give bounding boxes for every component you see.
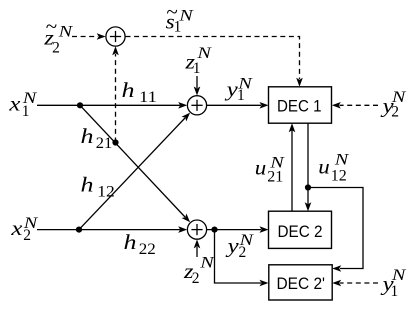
wire h21 diagonal — [80, 105, 190, 222]
wire u21 from DEC 2 to DEC 1 — [289, 123, 296, 211]
label h11 — [122, 78, 158, 106]
adder A3 (y2) — [187, 220, 206, 239]
label h22 — [124, 230, 156, 258]
box DEC 2' — [269, 265, 332, 300]
label y2N (right of DEC 1) — [380, 89, 407, 120]
dashed wire s~1 from A1 to DEC 1 top — [126, 37, 303, 87]
svg-text:N: N — [199, 255, 216, 272]
label x2N — [10, 215, 39, 244]
wire x1 horizontal — [37, 102, 187, 109]
svg-text:h: h — [81, 124, 94, 148]
dashed wire y1 into DEC 2' right — [332, 280, 378, 287]
svg-text:DEC 2: DEC 2 — [278, 222, 323, 241]
node on x2 line — [76, 227, 82, 233]
svg-text:N: N — [391, 267, 408, 284]
feedback wire from u12 node to DEC 2' right — [308, 188, 363, 272]
label h12 — [81, 173, 115, 201]
svg-text:2: 2 — [52, 39, 60, 56]
label y1N (right of DEC 2') — [380, 267, 407, 300]
wire z1 into adder A2 — [194, 76, 201, 96]
dashed wire y2 into DEC 1 right — [332, 102, 378, 109]
node on x1 line — [77, 102, 83, 108]
svg-text:~: ~ — [46, 14, 58, 38]
label h21 — [81, 124, 113, 152]
wire x2 horizontal — [37, 226, 187, 233]
dashed wire from h21 tap up to adder A1 — [112, 46, 119, 142]
svg-text:DEC 1: DEC 1 — [277, 96, 322, 115]
node on u12 wire — [305, 184, 311, 190]
label s~1N (tilde s) — [166, 0, 195, 35]
svg-text:h: h — [122, 78, 135, 102]
svg-text:u: u — [318, 155, 330, 179]
svg-text:N: N — [238, 232, 255, 249]
label y1N (top, after A2) — [224, 76, 254, 104]
svg-text:y: y — [225, 233, 239, 257]
svg-text:u: u — [255, 155, 266, 179]
svg-text:N: N — [237, 76, 254, 93]
wire y2 from A3 to DEC 2 — [207, 226, 269, 233]
wire h12 diagonal — [79, 113, 190, 230]
svg-text:h: h — [124, 230, 137, 254]
svg-text:N: N — [333, 152, 350, 169]
svg-text:11: 11 — [139, 89, 157, 106]
svg-text:21: 21 — [96, 135, 113, 152]
wire y1 from A2 to DEC 1 — [207, 102, 269, 109]
branch wire from y2 node to DEC 2' — [215, 230, 269, 287]
svg-text:N: N — [22, 215, 39, 232]
svg-text:22: 22 — [139, 241, 156, 258]
svg-text:N: N — [391, 89, 408, 106]
node on h21 diagonal (tap for dashed feed) — [112, 139, 118, 145]
wire u12 from DEC 1 to DEC 2 — [305, 123, 312, 211]
adder A1 (top) — [106, 27, 125, 46]
svg-text:x: x — [8, 92, 21, 116]
svg-text:N: N — [269, 155, 286, 172]
svg-text:1: 1 — [391, 283, 399, 300]
svg-text:2: 2 — [192, 270, 200, 287]
label z~2N (tilde z) — [43, 14, 74, 56]
svg-text:h: h — [81, 173, 94, 197]
svg-text:DEC 2': DEC 2' — [277, 274, 326, 293]
label y2N (after A3) — [225, 232, 255, 261]
svg-text:12: 12 — [97, 183, 115, 200]
label u21N — [255, 155, 286, 186]
node on y2 wire — [211, 227, 217, 233]
label u12N — [318, 152, 350, 185]
wire z2 into adder A3 — [194, 239, 201, 257]
svg-text:12: 12 — [331, 167, 347, 184]
svg-text:1: 1 — [193, 60, 201, 77]
label x1N — [8, 90, 38, 120]
svg-text:N: N — [57, 23, 74, 40]
dashed wire z~2 into adder A1 — [72, 33, 106, 40]
box DEC 1 — [269, 87, 332, 123]
svg-text:N: N — [178, 7, 195, 24]
label z2N — [183, 255, 216, 287]
svg-text:x: x — [10, 216, 23, 240]
box DEC 2 — [269, 211, 332, 248]
adder A2 (y1) — [187, 96, 206, 115]
svg-text:N: N — [196, 45, 213, 62]
label z1N — [184, 45, 213, 77]
svg-text:N: N — [21, 90, 38, 107]
